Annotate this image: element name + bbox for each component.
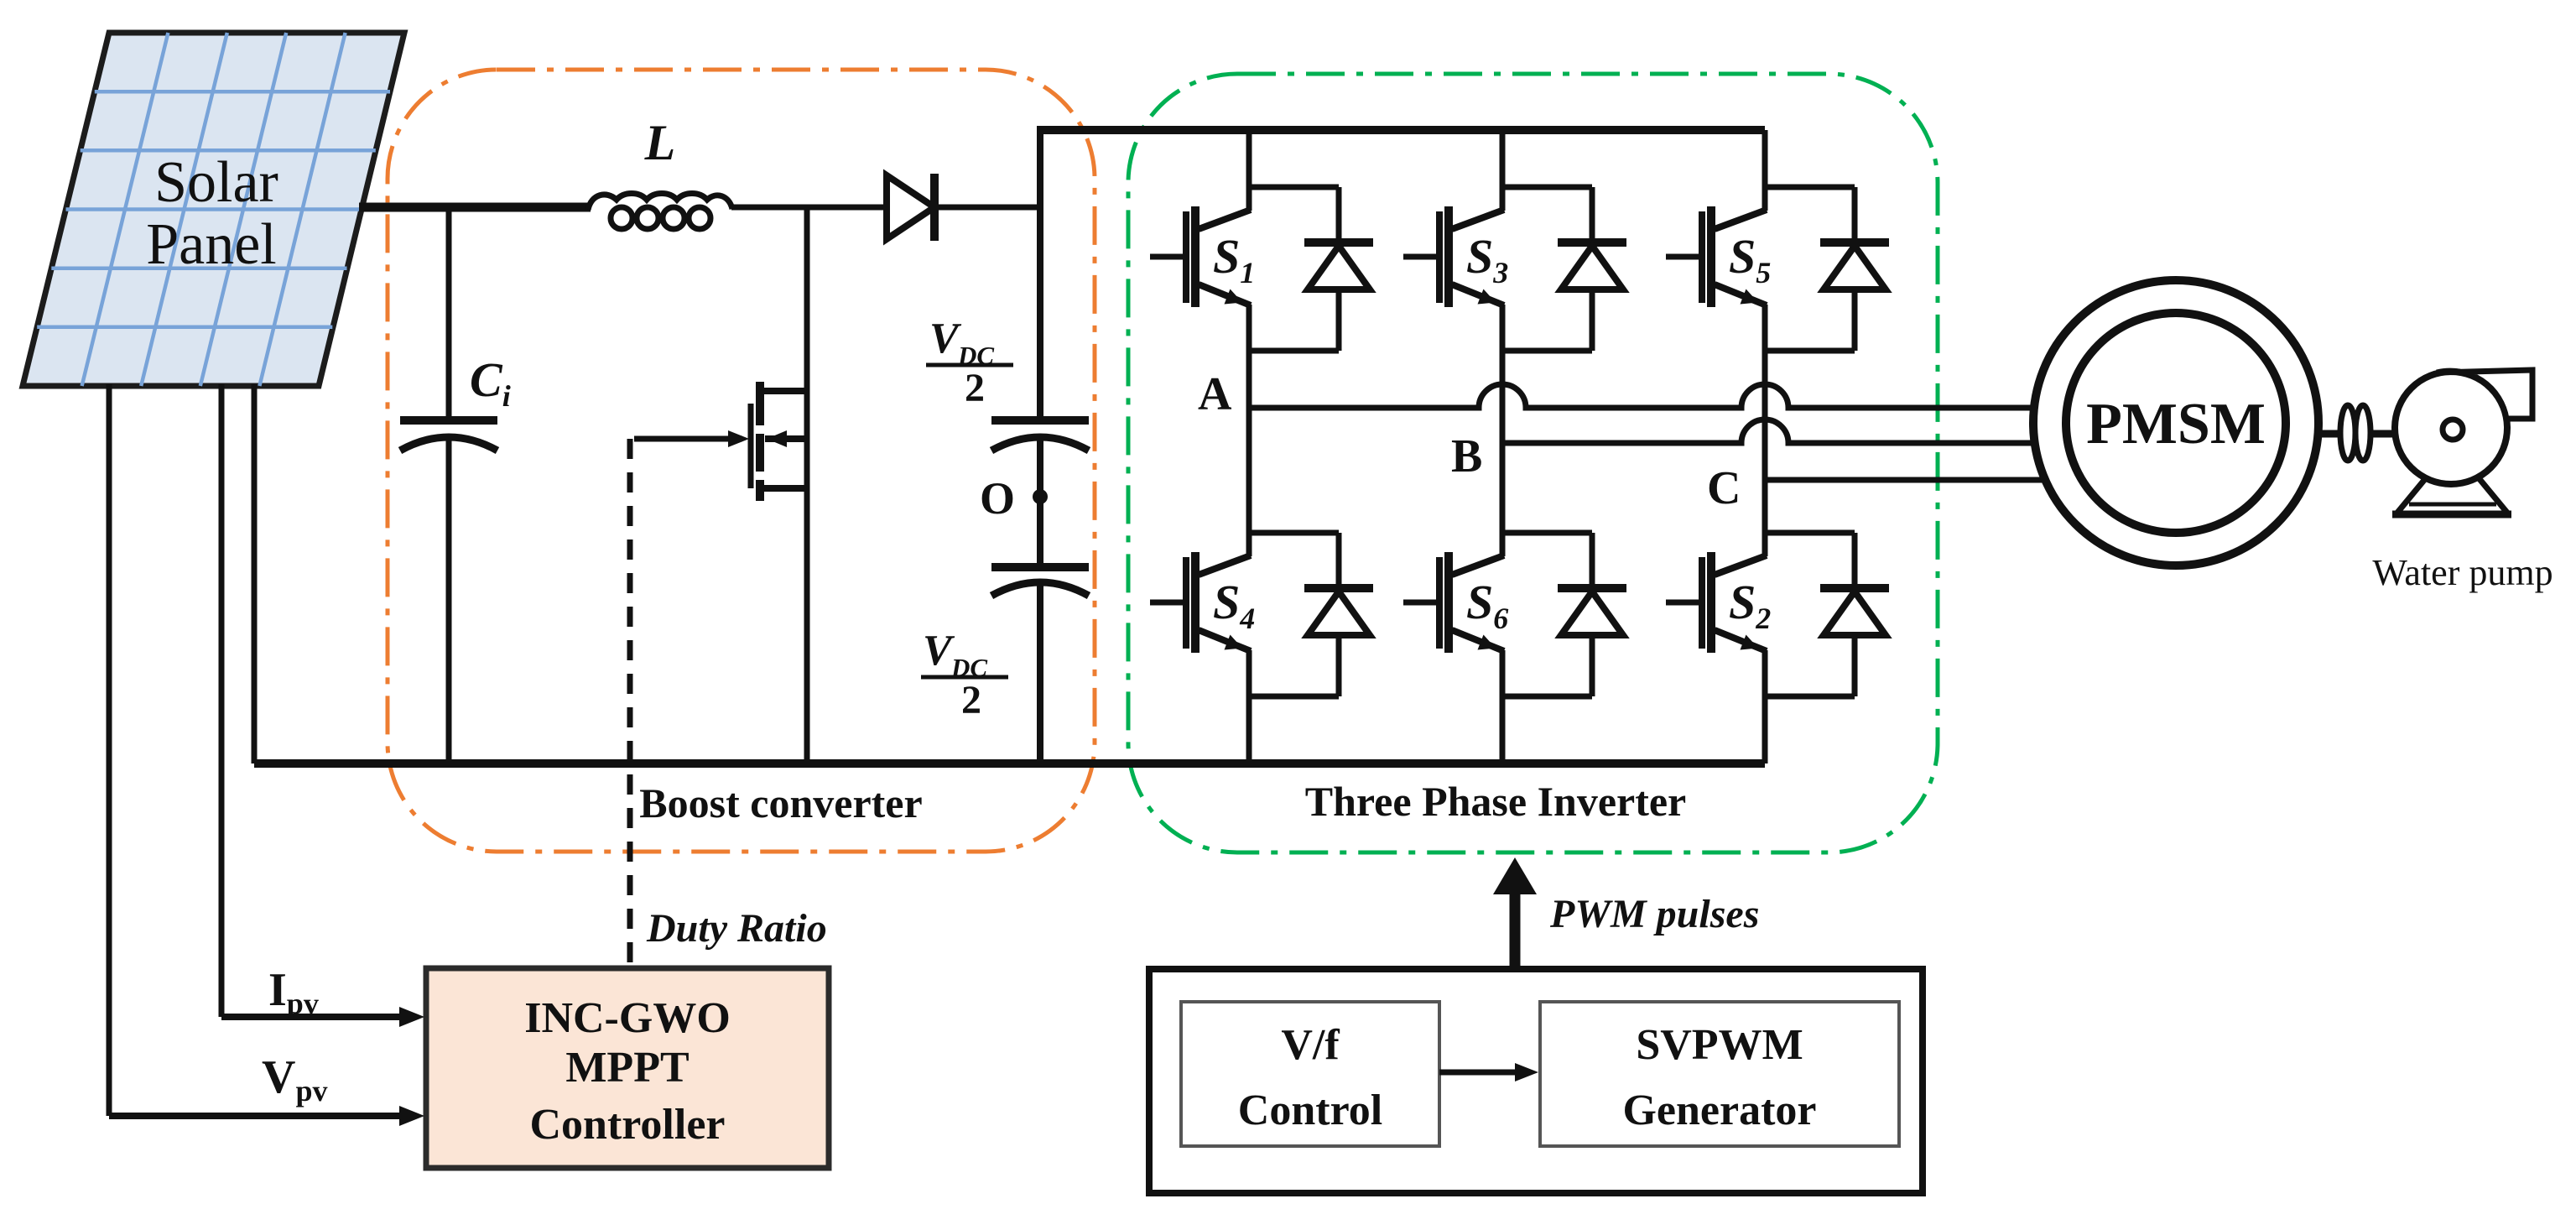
solar panel — [23, 33, 404, 386]
label VDC/2 top — [929, 315, 994, 410]
inductor L — [588, 194, 732, 230]
shaft coupling — [2317, 405, 2399, 461]
transistor Q1 (boost MOSFET) — [634, 207, 807, 764]
wire: panel to inductor (thick) — [359, 203, 591, 212]
wire Vpv with arrow — [109, 1113, 404, 1119]
svg-text:Control: Control — [1238, 1087, 1382, 1134]
svg-text:A: A — [1198, 368, 1232, 420]
svg-text:S4: S4 — [1213, 575, 1255, 635]
IGBT S6 + diode — [1403, 533, 1626, 696]
svg-text:B: B — [1451, 430, 1482, 482]
water pump — [2392, 370, 2532, 514]
svg-text:O: O — [980, 473, 1015, 524]
DC link vertical bus — [1037, 126, 1043, 420]
IGBT S2 + diode — [1666, 533, 1889, 696]
SVPWM generator box — [1540, 1002, 1899, 1146]
IGBT S1 + diode — [1150, 187, 1373, 351]
wire: panel left lead down to Vpv — [107, 384, 112, 1116]
phase wire C — [1765, 477, 2051, 483]
svg-text:Three Phase Inverter: Three Phase Inverter — [1305, 778, 1687, 825]
inverter leg A — [1246, 130, 1252, 764]
wire: panel right lead down to bottom bus — [252, 384, 258, 764]
IGBT S5 + diode — [1666, 187, 1889, 351]
svg-text:Vpv: Vpv — [262, 1051, 327, 1108]
svg-text:C: C — [1707, 462, 1741, 514]
V/f control box — [1181, 1002, 1439, 1146]
inverter leg C — [1762, 130, 1768, 764]
svg-text:SVPWM: SVPWM — [1636, 1021, 1803, 1069]
svg-text:S5: S5 — [1729, 229, 1771, 289]
bottom bus — [254, 759, 1765, 768]
svg-text:Solar: Solar — [154, 150, 278, 215]
svg-text:S6: S6 — [1466, 575, 1508, 635]
svg-text:Generator: Generator — [1622, 1087, 1816, 1134]
node O — [1033, 489, 1048, 504]
diode D1 — [887, 174, 934, 241]
svg-text:2: 2 — [961, 678, 981, 722]
PWM pulses arrow — [1510, 888, 1521, 968]
wire V/f to SVPWM with arrow — [1439, 1070, 1520, 1076]
svg-text:Controller: Controller — [530, 1101, 726, 1149]
svg-text:MPPT: MPPT — [565, 1044, 689, 1092]
top bus — [1037, 126, 1765, 134]
svg-text:PMSM: PMSM — [2086, 392, 2266, 456]
IGBT S4 + diode — [1150, 533, 1373, 696]
boost converter boundary (orange dash-dot) — [388, 70, 1095, 852]
svg-text:PWM pulses: PWM pulses — [1549, 892, 1759, 936]
capacitor C1 (VDC/2 top) — [991, 420, 1089, 451]
phase wire A with hops — [1249, 384, 2047, 408]
inverter leg B — [1500, 130, 1506, 764]
MPPT controller box — [426, 968, 829, 1168]
control outer box — [1149, 969, 1923, 1193]
capacitor Ci — [400, 207, 497, 764]
svg-text:Ipv: Ipv — [268, 964, 319, 1020]
svg-text:Boost converter: Boost converter — [639, 779, 922, 826]
duty ratio dashed wire — [627, 439, 633, 968]
wire: panel mid lead down to Ipv — [219, 384, 225, 1017]
svg-text:S3: S3 — [1466, 229, 1508, 289]
svg-text:S2: S2 — [1729, 575, 1771, 635]
wire: inductor to DC bus with diode — [731, 205, 1040, 211]
IGBT S3 + diode — [1403, 187, 1626, 351]
svg-text:Water pump: Water pump — [2372, 552, 2553, 593]
svg-text:Duty Ratio: Duty Ratio — [646, 906, 827, 951]
wire Ipv with arrow — [221, 1014, 404, 1020]
svg-text:S1: S1 — [1213, 229, 1255, 289]
svg-text:Panel: Panel — [146, 212, 277, 277]
svg-text:Ci: Ci — [470, 352, 511, 413]
phase wire B with hop — [1502, 420, 2047, 443]
svg-text:2: 2 — [965, 366, 985, 410]
svg-text:L: L — [644, 115, 676, 170]
three phase inverter boundary (green dash-dot) — [1128, 74, 1938, 852]
svg-text:V/f: V/f — [1281, 1021, 1340, 1069]
motor PMSM — [2033, 280, 2318, 565]
svg-text:INC-GWO: INC-GWO — [524, 994, 731, 1042]
capacitor C2 (VDC/2 bottom) — [991, 567, 1089, 596]
label VDC/2 bottom — [923, 627, 987, 722]
